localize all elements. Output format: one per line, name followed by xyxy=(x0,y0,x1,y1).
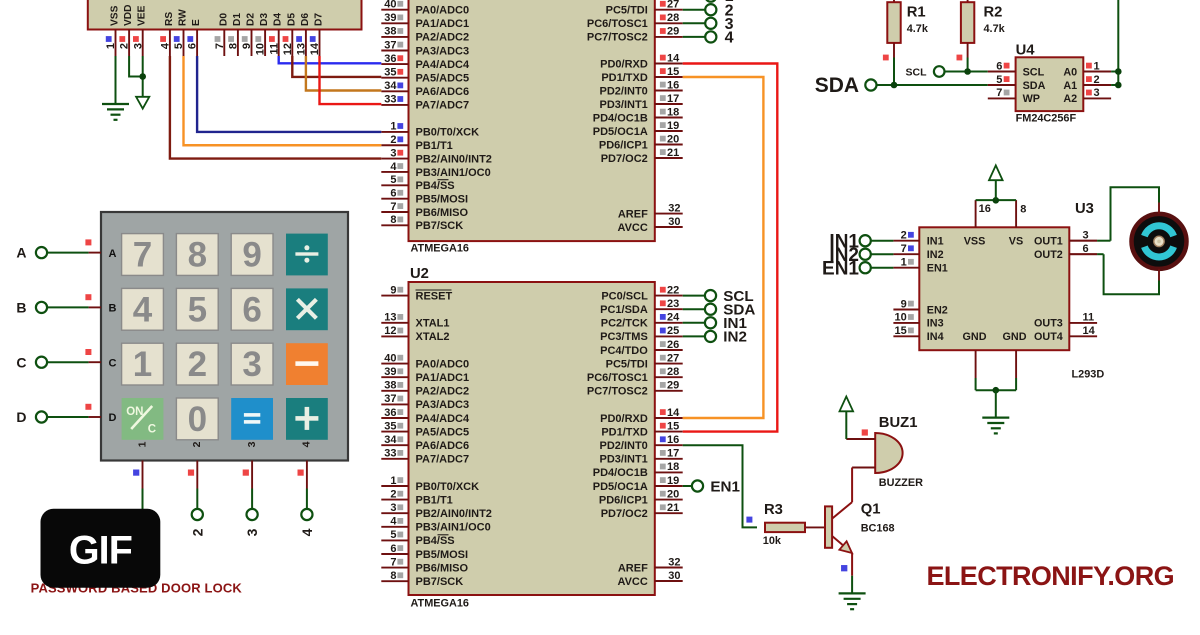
svg-text:8: 8 xyxy=(390,570,396,582)
svg-text:1: 1 xyxy=(133,345,152,384)
svg-text:7: 7 xyxy=(901,243,907,255)
svg-text:6: 6 xyxy=(996,60,1002,72)
svg-text:D: D xyxy=(109,412,117,424)
svg-text:6: 6 xyxy=(1083,243,1089,255)
svg-text:2: 2 xyxy=(1094,74,1100,86)
svg-text:PB3/AIN1/OC0: PB3/AIN1/OC0 xyxy=(416,522,491,534)
svg-text:9: 9 xyxy=(242,236,261,275)
svg-text:AREF: AREF xyxy=(618,562,648,574)
svg-text:3: 3 xyxy=(246,441,258,447)
svg-text:2: 2 xyxy=(390,488,396,500)
svg-text:27: 27 xyxy=(667,0,679,11)
svg-text:36: 36 xyxy=(384,407,396,419)
svg-text:35: 35 xyxy=(384,67,396,79)
svg-text:40: 40 xyxy=(384,352,396,364)
svg-text:BUZZER: BUZZER xyxy=(879,477,923,489)
svg-text:AVCC: AVCC xyxy=(617,222,647,234)
svg-text:R2: R2 xyxy=(984,5,1003,21)
svg-text:13: 13 xyxy=(296,43,308,55)
svg-text:14: 14 xyxy=(667,407,680,419)
svg-text:PA0/ADC0: PA0/ADC0 xyxy=(416,5,470,17)
svg-text:PC7/TOSC2: PC7/TOSC2 xyxy=(587,386,648,398)
svg-text:24: 24 xyxy=(667,312,680,324)
svg-text:28: 28 xyxy=(667,366,679,378)
svg-text:5: 5 xyxy=(390,529,396,541)
svg-text:17: 17 xyxy=(667,93,679,105)
svg-text:7: 7 xyxy=(996,87,1002,99)
svg-text:3: 3 xyxy=(390,502,396,514)
svg-text:18: 18 xyxy=(667,461,679,473)
svg-text:C: C xyxy=(148,424,156,436)
svg-text:PD7/OC2: PD7/OC2 xyxy=(601,153,648,165)
svg-text:32: 32 xyxy=(668,556,680,568)
svg-text:9: 9 xyxy=(390,284,396,296)
svg-text:26: 26 xyxy=(667,339,679,351)
svg-text:1: 1 xyxy=(901,257,907,269)
svg-text:ATMEGA16: ATMEGA16 xyxy=(411,243,470,255)
svg-text:SDA: SDA xyxy=(815,74,859,97)
svg-text:U3: U3 xyxy=(1075,201,1094,217)
svg-text:PD5/OC1A: PD5/OC1A xyxy=(593,481,648,493)
svg-text:20: 20 xyxy=(667,133,679,145)
svg-text:3: 3 xyxy=(1094,87,1100,99)
svg-text:40: 40 xyxy=(384,0,396,11)
svg-text:36: 36 xyxy=(384,53,396,65)
svg-text:35: 35 xyxy=(384,420,396,432)
svg-text:BC168: BC168 xyxy=(861,522,895,534)
svg-text:PD1/TXD: PD1/TXD xyxy=(601,72,648,84)
svg-text:37: 37 xyxy=(384,39,396,51)
svg-text:PD3/INT1: PD3/INT1 xyxy=(600,454,648,466)
svg-text:PB6/MISO: PB6/MISO xyxy=(416,562,469,574)
svg-text:E: E xyxy=(191,19,202,26)
svg-text:A: A xyxy=(109,248,117,260)
svg-text:PD4/OC1B: PD4/OC1B xyxy=(593,112,648,124)
svg-text:D4: D4 xyxy=(273,13,284,26)
svg-text:33: 33 xyxy=(384,448,396,460)
svg-text:D6: D6 xyxy=(300,13,311,26)
svg-text:11: 11 xyxy=(1083,312,1095,324)
svg-text:PA6/ADC6: PA6/ADC6 xyxy=(416,86,470,98)
svg-text:12: 12 xyxy=(384,325,396,337)
svg-text:PC3/TMS: PC3/TMS xyxy=(600,331,648,343)
svg-text:VS: VS xyxy=(1009,236,1023,248)
svg-text:4.7k: 4.7k xyxy=(984,23,1006,35)
svg-text:PA2/ADC2: PA2/ADC2 xyxy=(416,386,470,398)
svg-text:PD2/INT0: PD2/INT0 xyxy=(600,440,648,452)
svg-text:ELECTRONIFY.ORG: ELECTRONIFY.ORG xyxy=(926,561,1174,591)
svg-text:14: 14 xyxy=(309,42,321,55)
svg-text:PB5/MOSI: PB5/MOSI xyxy=(416,193,469,205)
svg-text:2: 2 xyxy=(188,345,207,384)
svg-text:15: 15 xyxy=(667,420,679,432)
svg-text:PA7/ADC7: PA7/ADC7 xyxy=(416,454,470,466)
svg-text:GND: GND xyxy=(963,331,987,343)
svg-text:A2: A2 xyxy=(1063,93,1077,105)
svg-text:SCL: SCL xyxy=(1023,66,1045,78)
svg-text:PA4/ADC4: PA4/ADC4 xyxy=(416,59,470,71)
svg-text:D1: D1 xyxy=(232,13,243,26)
svg-text:2: 2 xyxy=(191,441,203,447)
svg-text:6: 6 xyxy=(390,187,396,199)
svg-text:PB4/SS: PB4/SS xyxy=(416,535,455,547)
svg-text:PA6/ADC6: PA6/ADC6 xyxy=(416,440,470,452)
svg-text:D: D xyxy=(16,409,26,425)
svg-text:PB2/AIN0/INT2: PB2/AIN0/INT2 xyxy=(416,153,492,165)
svg-text:22: 22 xyxy=(667,284,679,296)
svg-text:PB3/AIN1/OC0: PB3/AIN1/OC0 xyxy=(416,167,491,179)
svg-text:6: 6 xyxy=(242,290,261,329)
svg-text:5: 5 xyxy=(173,43,185,49)
svg-text:37: 37 xyxy=(384,393,396,405)
svg-text:IN3: IN3 xyxy=(927,318,944,330)
svg-text:PB1/T1: PB1/T1 xyxy=(416,494,453,506)
svg-text:16: 16 xyxy=(667,79,679,91)
svg-text:EN1: EN1 xyxy=(927,263,948,275)
svg-text:4.7k: 4.7k xyxy=(907,23,929,35)
svg-text:15: 15 xyxy=(667,66,679,78)
svg-text:1: 1 xyxy=(390,475,396,487)
svg-text:PC0/SCL: PC0/SCL xyxy=(601,290,648,302)
svg-text:5: 5 xyxy=(188,290,207,329)
svg-text:D3: D3 xyxy=(259,13,270,26)
svg-text:PD5/OC1A: PD5/OC1A xyxy=(593,126,648,138)
svg-text:19: 19 xyxy=(667,475,679,487)
svg-text:16: 16 xyxy=(667,434,679,446)
svg-text:38: 38 xyxy=(384,26,396,38)
svg-text:ATMEGA16: ATMEGA16 xyxy=(411,598,470,610)
svg-text:A1: A1 xyxy=(1063,80,1077,92)
svg-text:7: 7 xyxy=(390,556,396,568)
svg-text:9: 9 xyxy=(901,298,907,310)
svg-text:28: 28 xyxy=(667,12,679,24)
svg-text:2: 2 xyxy=(189,528,205,536)
svg-text:PC6/TOSC1: PC6/TOSC1 xyxy=(587,372,648,384)
svg-text:12: 12 xyxy=(282,43,294,55)
svg-text:SCL: SCL xyxy=(906,66,928,78)
svg-text:PA4/ADC4: PA4/ADC4 xyxy=(416,413,470,425)
svg-text:29: 29 xyxy=(667,26,679,38)
svg-text:7: 7 xyxy=(133,236,152,275)
svg-text:17: 17 xyxy=(667,448,679,460)
svg-text:GIF: GIF xyxy=(69,529,132,573)
svg-text:PB5/MOSI: PB5/MOSI xyxy=(416,549,469,561)
svg-text:PA1/ADC1: PA1/ADC1 xyxy=(416,372,470,384)
svg-text:PC6/TOSC1: PC6/TOSC1 xyxy=(587,18,648,30)
svg-text:5: 5 xyxy=(996,74,1002,86)
svg-text:VSS: VSS xyxy=(964,236,986,248)
svg-text:11: 11 xyxy=(268,43,280,55)
svg-text:BUZ1: BUZ1 xyxy=(879,415,918,431)
svg-text:3: 3 xyxy=(242,345,261,384)
svg-text:AVCC: AVCC xyxy=(617,576,647,588)
svg-text:WP: WP xyxy=(1023,93,1040,105)
svg-text:33: 33 xyxy=(384,94,396,106)
svg-text:21: 21 xyxy=(667,147,679,159)
svg-text:OUT4: OUT4 xyxy=(1034,331,1063,343)
svg-text:PC5/TDI: PC5/TDI xyxy=(606,5,648,17)
svg-text:8: 8 xyxy=(390,214,396,226)
svg-text:34: 34 xyxy=(384,80,397,92)
svg-text:OUT3: OUT3 xyxy=(1034,318,1063,330)
svg-text:D2: D2 xyxy=(246,13,257,26)
svg-text:A0: A0 xyxy=(1063,66,1077,78)
svg-text:PA2/ADC2: PA2/ADC2 xyxy=(416,32,470,44)
svg-text:PB0/T0/XCK: PB0/T0/XCK xyxy=(416,481,480,493)
svg-text:39: 39 xyxy=(384,366,396,378)
svg-text:9: 9 xyxy=(241,43,253,49)
svg-text:PD0/RXD: PD0/RXD xyxy=(600,58,648,70)
svg-text:3: 3 xyxy=(244,528,260,536)
svg-text:PD1/TXD: PD1/TXD xyxy=(601,426,648,438)
svg-text:14: 14 xyxy=(1083,325,1096,337)
svg-text:PD4/OC1B: PD4/OC1B xyxy=(593,467,648,479)
svg-text:23: 23 xyxy=(667,298,679,310)
svg-text:VSS: VSS xyxy=(110,5,121,26)
svg-text:2: 2 xyxy=(119,43,131,49)
svg-text:PD7/OC2: PD7/OC2 xyxy=(601,508,648,520)
svg-text:Q1: Q1 xyxy=(861,502,881,518)
svg-text:2: 2 xyxy=(390,134,396,146)
svg-text:3: 3 xyxy=(132,43,144,49)
svg-text:PA3/ADC3: PA3/ADC3 xyxy=(416,45,470,57)
svg-text:10: 10 xyxy=(255,43,267,55)
svg-text:4: 4 xyxy=(390,516,397,528)
svg-text:PD3/INT1: PD3/INT1 xyxy=(600,99,648,111)
svg-text:4: 4 xyxy=(390,161,397,173)
svg-text:OUT1: OUT1 xyxy=(1034,236,1063,248)
svg-text:14: 14 xyxy=(667,52,680,64)
svg-text:VEE: VEE xyxy=(137,5,148,26)
svg-text:18: 18 xyxy=(667,106,679,118)
svg-text:B: B xyxy=(109,303,117,315)
svg-text:PC1/SDA: PC1/SDA xyxy=(600,304,648,316)
svg-text:PC4/TDO: PC4/TDO xyxy=(600,345,648,357)
svg-text:30: 30 xyxy=(668,216,680,228)
svg-text:PD0/RXD: PD0/RXD xyxy=(600,413,648,425)
svg-text:39: 39 xyxy=(384,12,396,24)
svg-text:XTAL2: XTAL2 xyxy=(416,331,450,343)
svg-text:PB7/SCK: PB7/SCK xyxy=(416,576,464,588)
svg-text:IN4: IN4 xyxy=(927,331,944,343)
svg-text:6: 6 xyxy=(187,43,199,49)
svg-text:PD2/INT0: PD2/INT0 xyxy=(600,85,648,97)
svg-text:PC5/TDI: PC5/TDI xyxy=(606,358,648,370)
svg-text:EN1: EN1 xyxy=(710,478,740,495)
svg-text:8: 8 xyxy=(1020,203,1026,215)
svg-text:21: 21 xyxy=(667,502,679,514)
svg-text:0: 0 xyxy=(188,400,207,439)
svg-text:10k: 10k xyxy=(763,535,782,547)
svg-text:4: 4 xyxy=(160,42,172,49)
svg-text:VDD: VDD xyxy=(123,4,134,26)
svg-text:PA7/ADC7: PA7/ADC7 xyxy=(416,100,470,112)
svg-text:IN2: IN2 xyxy=(927,249,944,261)
svg-text:PA3/ADC3: PA3/ADC3 xyxy=(416,399,470,411)
svg-text:15: 15 xyxy=(895,325,907,337)
svg-text:PA1/ADC1: PA1/ADC1 xyxy=(416,18,470,30)
svg-text:OUT2: OUT2 xyxy=(1034,249,1063,261)
svg-text:32: 32 xyxy=(668,202,680,214)
svg-text:29: 29 xyxy=(667,380,679,392)
svg-text:C: C xyxy=(109,357,117,369)
svg-text:D5: D5 xyxy=(286,13,297,26)
svg-text:6: 6 xyxy=(390,543,396,555)
svg-text:C: C xyxy=(16,354,26,370)
svg-text:PB6/MISO: PB6/MISO xyxy=(416,207,469,219)
svg-text:A: A xyxy=(16,245,26,261)
svg-text:IN1: IN1 xyxy=(927,236,944,248)
svg-text:PB1/T1: PB1/T1 xyxy=(416,140,453,152)
svg-text:4: 4 xyxy=(133,290,153,329)
svg-text:38: 38 xyxy=(384,380,396,392)
svg-text:27: 27 xyxy=(667,352,679,364)
svg-text:L293D: L293D xyxy=(1072,369,1105,381)
svg-text:PD6/ICP1: PD6/ICP1 xyxy=(599,494,648,506)
svg-text:PC4/TDO: PC4/TDO xyxy=(600,0,648,3)
svg-text:34: 34 xyxy=(384,434,397,446)
svg-text:PB4/SS: PB4/SS xyxy=(416,180,455,192)
svg-text:PA0/ADC0: PA0/ADC0 xyxy=(416,358,470,370)
svg-text:FM24C256F: FM24C256F xyxy=(1016,113,1077,125)
svg-text:IN2: IN2 xyxy=(723,329,747,346)
svg-text:EN1: EN1 xyxy=(822,258,859,279)
svg-text:1: 1 xyxy=(136,441,148,447)
svg-text:7: 7 xyxy=(214,43,226,49)
svg-text:4: 4 xyxy=(299,528,315,536)
svg-text:PB0/T0/XCK: PB0/T0/XCK xyxy=(416,127,480,139)
svg-text:3: 3 xyxy=(390,147,396,159)
svg-text:3: 3 xyxy=(1083,230,1089,242)
svg-text:5: 5 xyxy=(390,174,396,186)
svg-text:1: 1 xyxy=(1094,60,1100,72)
svg-text:D0: D0 xyxy=(218,13,229,26)
svg-text:AREF: AREF xyxy=(618,208,648,220)
svg-text:4: 4 xyxy=(725,30,734,47)
svg-text:16: 16 xyxy=(979,203,991,215)
svg-text:RESET: RESET xyxy=(416,290,453,302)
svg-text:1: 1 xyxy=(105,43,117,49)
svg-text:B: B xyxy=(16,300,26,316)
svg-text:2: 2 xyxy=(901,230,907,242)
svg-text:ON: ON xyxy=(126,406,143,418)
svg-text:8: 8 xyxy=(188,236,207,275)
svg-text:RS: RS xyxy=(164,12,175,26)
svg-text:7: 7 xyxy=(390,201,396,213)
svg-text:1: 1 xyxy=(390,121,396,133)
svg-text:GND: GND xyxy=(1003,331,1027,343)
svg-text:U2: U2 xyxy=(410,266,429,282)
svg-text:13: 13 xyxy=(384,312,396,324)
svg-text:20: 20 xyxy=(667,488,679,500)
svg-text:R3: R3 xyxy=(764,502,783,518)
svg-text:19: 19 xyxy=(667,120,679,132)
svg-text:XTAL1: XTAL1 xyxy=(416,318,450,330)
svg-text:25: 25 xyxy=(667,325,679,337)
svg-text:30: 30 xyxy=(668,570,680,582)
svg-text:D7: D7 xyxy=(314,13,325,26)
svg-text:PB7/SCK: PB7/SCK xyxy=(416,220,464,232)
svg-text:R1: R1 xyxy=(907,5,926,21)
svg-text:PC7/TOSC2: PC7/TOSC2 xyxy=(587,32,648,44)
svg-text:SDA: SDA xyxy=(1023,80,1046,92)
svg-text:8: 8 xyxy=(228,43,240,49)
svg-text:PD6/ICP1: PD6/ICP1 xyxy=(599,139,648,151)
svg-text:PA5/ADC5: PA5/ADC5 xyxy=(416,73,470,85)
svg-text:EN2: EN2 xyxy=(927,304,948,316)
svg-text:RW: RW xyxy=(178,9,189,26)
svg-text:PB2/AIN0/INT2: PB2/AIN0/INT2 xyxy=(416,508,492,520)
svg-text:PA5/ADC5: PA5/ADC5 xyxy=(416,426,470,438)
svg-text:10: 10 xyxy=(895,312,907,324)
svg-text:U4: U4 xyxy=(1016,43,1036,59)
svg-text:PC2/TCK: PC2/TCK xyxy=(601,318,648,330)
svg-text:4: 4 xyxy=(301,441,313,447)
